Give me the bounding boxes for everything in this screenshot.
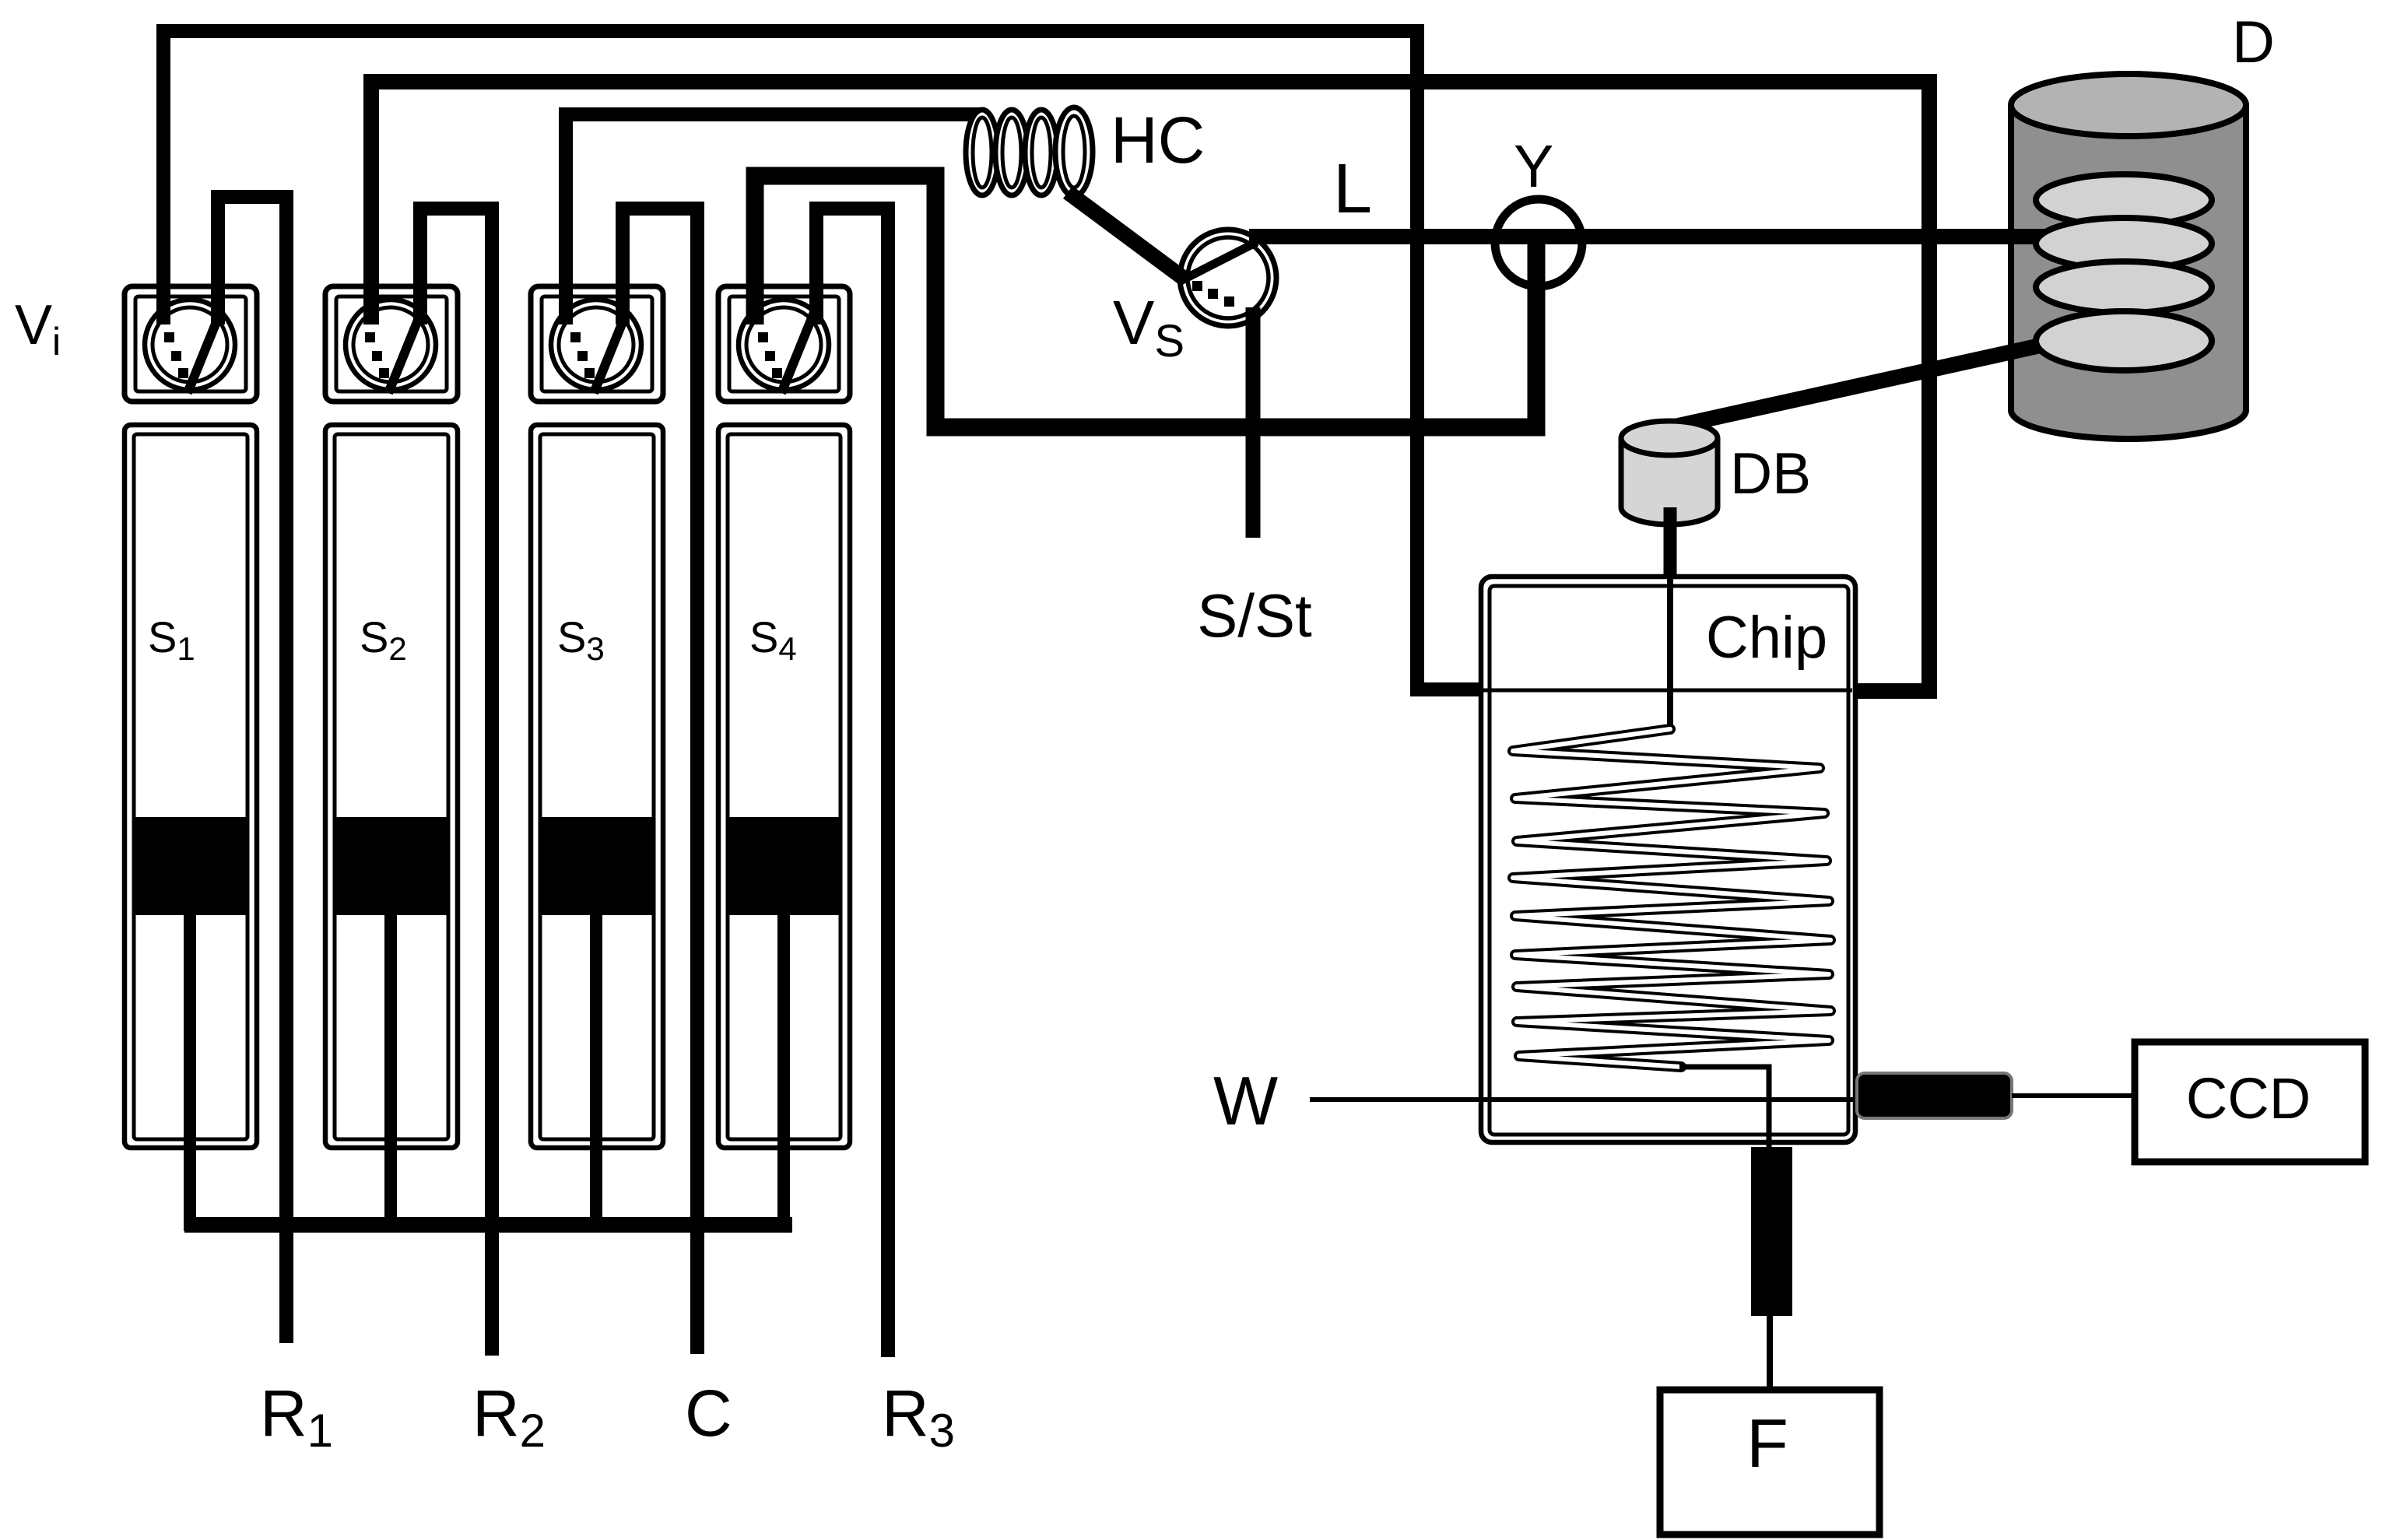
wire: DB down to chip xyxy=(1664,507,1677,580)
Y connector circle xyxy=(1495,199,1582,286)
wire: outlet to flow meter F xyxy=(1767,1316,1773,1390)
syringe pump S1: barrel xyxy=(125,425,257,1148)
wire: connector to CCD box xyxy=(2012,1093,2135,1098)
wire: S3 valve left port to holding coil HC (top line 3) xyxy=(566,114,982,324)
valve Vi-2 slash xyxy=(388,310,422,393)
chip serpentine outlet line xyxy=(1679,1067,1769,1152)
svg-text:DB: DB xyxy=(1730,440,1811,506)
D inner ellipse 3 xyxy=(2036,261,2212,313)
valve Vi-3 dots xyxy=(570,332,581,342)
syringe pump S2: valve box xyxy=(325,286,458,402)
syringe pump S4: barrel xyxy=(718,425,850,1148)
svg-text:F: F xyxy=(1746,1405,1788,1482)
wire: VS valve down to S/St xyxy=(1246,307,1261,538)
valve Vi-4 dots xyxy=(758,332,768,342)
selection valve VS dots xyxy=(1192,281,1202,291)
holding coil HC ring 1 xyxy=(966,107,1093,196)
syringe S4 plunger rod xyxy=(777,915,790,1231)
valve Vi-2 circle xyxy=(346,300,436,390)
svg-text:CCD: CCD xyxy=(2186,1066,2311,1131)
valve Vi-4 slash xyxy=(781,310,815,393)
svg-text:Y: Y xyxy=(1514,133,1553,200)
D cylinder top ellipse xyxy=(2011,74,2246,136)
selection valve VS circle xyxy=(1180,230,1276,326)
valve Vi-3 circle xyxy=(551,300,641,390)
holding coil HC ring 4 xyxy=(1055,107,1093,196)
svg-text:C: C xyxy=(685,1377,732,1450)
detector coil reservoir D: cylinder body xyxy=(2011,105,2246,439)
wire: VS valve through Y junction to D xyxy=(1249,229,2058,244)
chip interior crossing channel line xyxy=(1483,689,1852,693)
D inner ellipse 1 xyxy=(2036,174,2212,226)
wire: S4 valve right port to reagent R3 xyxy=(816,209,888,1357)
waste line W xyxy=(1310,1097,1855,1102)
svg-text:Chip: Chip xyxy=(1706,605,1827,671)
syringe S2 piston xyxy=(335,817,448,915)
wire: S2 valve right port to reagent R2 xyxy=(420,209,492,1356)
valve Vi-1 dots xyxy=(164,332,174,342)
valve Vi-2 dots xyxy=(365,332,375,342)
syringe S4 piston xyxy=(728,817,841,915)
wire: S4 valve left port to Y junction xyxy=(755,176,1536,427)
svg-text:S/St: S/St xyxy=(1197,581,1312,650)
D inner ellipse 2 xyxy=(2036,218,2212,269)
wire: HC coil to VS valve (diagonal) xyxy=(1068,192,1183,278)
F box xyxy=(1660,1390,1879,1535)
syringe pump S1: valve box xyxy=(125,286,257,402)
degassing bubble trap DB: cylinder body xyxy=(1621,438,1718,524)
wire: S1 valve left port to chip left side (top line 1) xyxy=(163,31,1481,689)
chip bottom outlet tube (black) xyxy=(1751,1147,1792,1316)
valve Vi-3 slash xyxy=(594,310,627,393)
svg-text:L: L xyxy=(1333,150,1372,228)
syringe pump S3: barrel xyxy=(531,425,663,1148)
syringe S2 plunger rod xyxy=(384,915,397,1231)
valve Vi-1 slash xyxy=(188,310,221,393)
selection valve VS slash xyxy=(1181,242,1257,281)
wire: S2 valve left port to chip right side (top line 2) xyxy=(371,82,1929,691)
syringe S3 piston xyxy=(540,817,654,915)
pusher bus bar connecting plunger rods xyxy=(184,1217,792,1233)
syringe pump S3: valve box xyxy=(531,286,663,402)
holding coil HC ring 2 xyxy=(995,110,1028,195)
D inner ellipse 4 xyxy=(2036,311,2212,370)
fiber optic connector to CCD xyxy=(1857,1073,2012,1118)
svg-text:HC: HC xyxy=(1111,103,1205,177)
syringe S1 piston xyxy=(134,817,247,915)
svg-text:W: W xyxy=(1213,1062,1278,1139)
chip serpentine channel xyxy=(1513,729,1830,1067)
holding coil HC ring 3 xyxy=(1025,110,1058,195)
wire: S1 valve right port to reagent R1 xyxy=(218,197,286,1343)
chip inner box xyxy=(1490,586,1848,1135)
CCD box xyxy=(2135,1042,2365,1162)
syringe pump S4: valve box xyxy=(718,286,850,402)
chip inlet line from DB xyxy=(1667,579,1673,729)
syringe S1 plunger rod xyxy=(184,915,196,1231)
microfluidic chip outer box xyxy=(1481,577,1855,1142)
syringe pump S2: barrel xyxy=(325,425,458,1148)
wire: DB to D (diagonal) xyxy=(1675,342,2055,426)
valve Vi-1 circle xyxy=(145,300,235,390)
valve Vi-4 circle xyxy=(739,300,829,390)
syringe S3 plunger rod xyxy=(590,915,602,1231)
wire: S3 valve right port to carrier C xyxy=(623,209,697,1354)
svg-text:D: D xyxy=(2232,9,2275,75)
DB top ellipse xyxy=(1621,421,1718,455)
